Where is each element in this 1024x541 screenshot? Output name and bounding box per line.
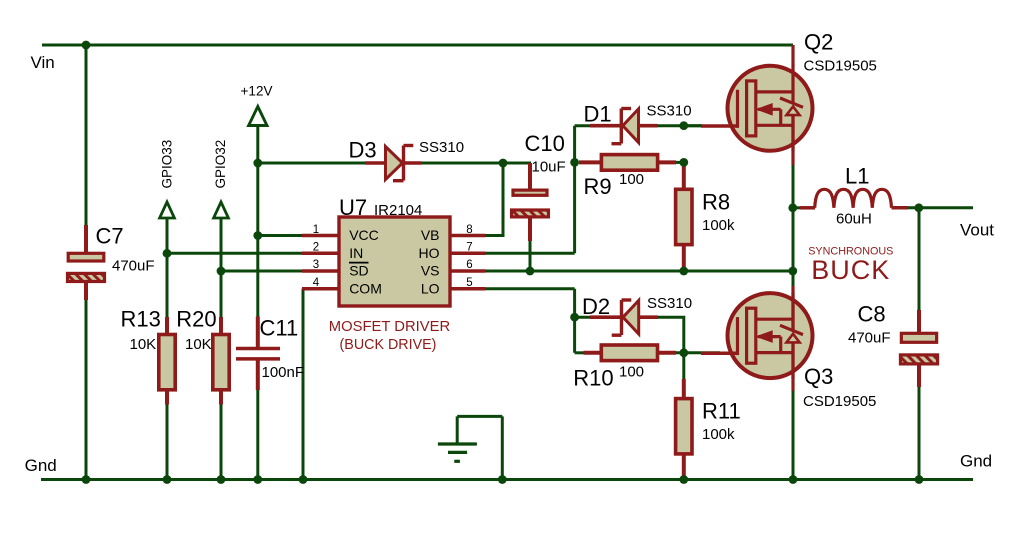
svg-text:D2: D2 [582,294,610,319]
svg-text:L1: L1 [845,164,869,189]
svg-text:D3: D3 [349,138,377,163]
svg-text:SS310: SS310 [647,103,692,120]
svg-text:2: 2 [313,242,319,254]
svg-text:10uF: 10uF [532,159,566,176]
svg-text:10K: 10K [185,336,212,353]
svg-text:6: 6 [466,259,472,271]
svg-text:CSD19505: CSD19505 [804,57,877,74]
svg-text:60uH: 60uH [836,211,872,228]
svg-text:C7: C7 [96,224,124,249]
svg-text:SD: SD [349,262,368,278]
svg-text:4: 4 [313,277,320,289]
svg-text:7: 7 [466,242,472,254]
svg-text:SS310: SS310 [419,139,464,156]
svg-text:C10: C10 [525,131,565,156]
svg-text:C11: C11 [260,316,299,341]
svg-text:VS: VS [421,262,440,278]
svg-text:IR2104: IR2104 [374,202,422,219]
svg-text:BUCK: BUCK [811,255,890,285]
svg-text:100k: 100k [702,217,735,234]
svg-text:(BUCK DRIVE): (BUCK DRIVE) [340,337,437,353]
svg-text:MOSFET DRIVER: MOSFET DRIVER [329,319,450,335]
svg-text:10K: 10K [130,336,157,353]
svg-text:SS310: SS310 [647,295,692,312]
svg-text:R13: R13 [121,307,161,332]
svg-text:D1: D1 [584,102,612,127]
svg-text:1: 1 [313,224,319,236]
svg-text:100: 100 [619,171,644,188]
svg-text:VCC: VCC [349,227,379,243]
svg-text:Gnd: Gnd [960,452,992,471]
svg-text:3: 3 [313,259,319,271]
svg-text:COM: COM [349,281,382,297]
svg-text:Q2: Q2 [804,30,833,55]
svg-text:IN: IN [349,245,363,261]
svg-text:GPIO32: GPIO32 [213,140,228,189]
svg-text:R8: R8 [702,190,730,215]
svg-text:GPIO33: GPIO33 [160,140,175,189]
svg-text:R20: R20 [176,307,216,332]
svg-text:470uF: 470uF [112,258,155,275]
svg-text:Gnd: Gnd [25,456,57,475]
svg-text:R11: R11 [702,399,741,424]
svg-text:Vin: Vin [31,53,55,72]
svg-text:470uF: 470uF [848,330,891,347]
svg-text:5: 5 [466,277,472,289]
svg-text:Q3: Q3 [804,364,833,389]
svg-text:100: 100 [619,364,644,381]
svg-text:HO: HO [419,245,440,261]
svg-text:VB: VB [421,227,440,243]
svg-text:8: 8 [466,224,472,236]
svg-text:C8: C8 [858,302,886,327]
svg-text:Vout: Vout [960,221,994,240]
svg-text:LO: LO [421,281,440,297]
svg-text:R9: R9 [584,174,612,199]
svg-text:100nF: 100nF [262,364,305,381]
svg-text:CSD19505: CSD19505 [803,393,876,410]
svg-text:U7: U7 [339,195,367,220]
svg-text:R10: R10 [573,365,613,390]
svg-text:+12V: +12V [241,84,273,99]
svg-text:100k: 100k [702,426,735,443]
